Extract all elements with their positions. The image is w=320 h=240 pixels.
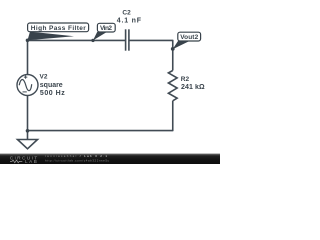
junction dot at top-left corner node	[26, 39, 30, 43]
voltage source V2 circle	[17, 75, 38, 96]
svg-text:V2: V2	[40, 74, 48, 81]
wire right vertical (R2 bottom to bottom wire)	[172, 101, 174, 131]
svg-text:Vin2: Vin2	[100, 25, 112, 32]
ground symbol triangle	[18, 140, 38, 149]
voltage source V2 minus sign	[23, 91, 27, 93]
svg-text:square: square	[40, 82, 63, 89]
svg-text:C2: C2	[122, 10, 131, 17]
svg-text:R2: R2	[181, 76, 190, 83]
wire top-right segment (C2 to corner)	[129, 39, 173, 41]
CircuitLab logo zigzag	[10, 160, 22, 163]
flag High Pass Filter box	[28, 23, 89, 32]
junction dot at ground node	[26, 129, 30, 133]
ground symbol stub	[27, 131, 29, 140]
wire top-left segment (node Vin2 net, left of C2)	[28, 39, 126, 41]
svg-text:LAB: LAB	[25, 159, 37, 164]
wire left vertical below V2	[27, 96, 29, 132]
capacitor C2 plates	[126, 29, 129, 50]
resistor R2 zigzag	[168, 71, 177, 101]
flag High Pass Filter pointer wedge	[28, 32, 75, 41]
svg-text:241 kΩ: 241 kΩ	[181, 84, 205, 91]
svg-text:500 Hz: 500 Hz	[40, 90, 65, 97]
svg-text:High Pass Filter: High Pass Filter	[31, 25, 86, 32]
voltage source V2 sine waveform	[19, 79, 32, 90]
flag Vout2 pointer wedge	[173, 41, 189, 49]
voltage source V2 plus sign	[24, 75, 27, 78]
wire left vertical above V2	[27, 40, 29, 75]
junction dot at Vout2 node	[171, 47, 175, 51]
junction dot at Vin2 node	[91, 39, 94, 42]
flag Vin2 pointer wedge	[93, 32, 107, 41]
wire bottom horizontal	[28, 130, 173, 132]
svg-text:4.1 nF: 4.1 nF	[117, 18, 142, 25]
svg-text:http://circuitlab.com/c4ab322n: http://circuitlab.com/c4ab322nse5c	[45, 158, 110, 162]
wire right vertical (corner to R2 top)	[172, 40, 174, 71]
svg-text:Vout2: Vout2	[180, 34, 198, 41]
flag Vout2 box	[178, 32, 201, 41]
flag Vin2 box	[97, 23, 115, 32]
